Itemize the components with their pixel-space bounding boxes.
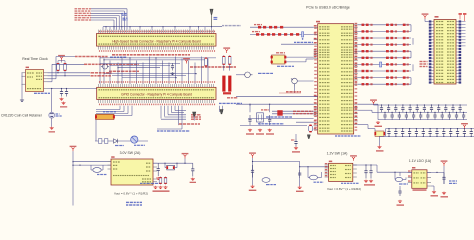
U6 left pins bbox=[408, 171, 412, 173]
capacitor C out U5 a bbox=[364, 165, 367, 179]
PCIe TX pair row w/ series caps bbox=[250, 33, 314, 35]
diode D U5 bbox=[310, 175, 318, 180]
termination row 2 series group B bbox=[386, 30, 389, 32]
termination row 8 wire bbox=[358, 70, 411, 72]
net label RTC_INT row bbox=[75, 56, 108, 58]
termination row 3 end cap bbox=[403, 37, 406, 39]
termination row 4 series resistor group A bbox=[362, 43, 365, 45]
termination row 9 series resistor group A bbox=[362, 76, 365, 78]
battery BT1 symbol bbox=[49, 112, 55, 118]
termination row 3 series resistor group A bbox=[362, 37, 365, 39]
termination row 8 series resistor group A bbox=[362, 70, 365, 72]
J3 inner pin names bbox=[436, 21, 444, 22]
wires pair to label bus bbox=[223, 65, 225, 70]
connector J2 GPIO top pin row bbox=[99, 81, 215, 87]
power flag input +5V bbox=[72, 148, 75, 152]
battery designator bbox=[56, 113, 60, 114]
ground RTC caps 1 bbox=[59, 98, 63, 101]
crystal case cap bbox=[259, 122, 261, 125]
blue label below bundle bbox=[157, 130, 190, 131]
bank2 top rail bbox=[386, 128, 474, 130]
LED D bright red pair bbox=[222, 76, 231, 92]
rail stubs to J1 pins bbox=[102, 27, 104, 30]
bank2 capacitors bbox=[387, 129, 390, 137]
red series pair lower bbox=[272, 110, 314, 112]
resistors R pullup pair right bbox=[223, 55, 226, 65]
transistor Q1 bbox=[244, 72, 253, 78]
J1 inner pin names top bbox=[99, 36, 215, 37]
termination row 1 series group B bbox=[386, 24, 389, 26]
wire U5 out to LDO bbox=[376, 165, 378, 172]
power flag +3V3 RTC bbox=[60, 57, 63, 61]
wires bend left to edge bbox=[119, 106, 121, 110]
vertical link wires in rows bbox=[410, 25, 412, 32]
termination row 4 wire bbox=[358, 44, 411, 46]
bank1 left drop + ground bbox=[377, 105, 379, 120]
svg-text:1.2V SW (1A): 1.2V SW (1A) bbox=[327, 152, 348, 156]
inductor L1 bbox=[166, 165, 174, 170]
capacitor C RTC 1 bbox=[60, 89, 63, 97]
resistor R pullup RTC 1 bbox=[57, 63, 60, 72]
U4 pin names left bbox=[113, 161, 120, 162]
connector J1 body bbox=[97, 34, 217, 47]
hmm ground ldo in bbox=[398, 200, 402, 203]
U6 pin names bbox=[413, 172, 419, 173]
U5 left pins bbox=[325, 164, 329, 166]
long rail into U1 bottom-left bbox=[236, 96, 318, 98]
page ref blue bottom left bbox=[126, 202, 142, 203]
termination row 8 end cap bbox=[403, 70, 406, 72]
J3 right pin pads bbox=[456, 20, 461, 83]
wires J2 right bottom pins down bbox=[219, 106, 221, 112]
U4 right pin stubs bbox=[153, 162, 157, 164]
termination row 7 wire bbox=[358, 63, 411, 65]
U1 right lower stubs to banks bbox=[358, 103, 378, 105]
capacitor C out U5 b bbox=[369, 165, 372, 179]
input rail vertical wire bbox=[72, 151, 74, 205]
net labels PCIe/serial bus (top-left) bbox=[75, 8, 92, 9]
J3 left pin pads bbox=[429, 20, 434, 83]
capacitor C LDO in bbox=[399, 172, 401, 176]
U3 pin names bbox=[27, 72, 34, 73]
net label RTC_SDA bbox=[91, 75, 111, 77]
U6 input wire bbox=[406, 171, 412, 173]
grounds crystal red bbox=[248, 129, 252, 132]
capacitor C mid with ground bbox=[171, 63, 174, 71]
bank2 right power flag bbox=[463, 125, 466, 129]
termination row 1 series resistor group A bbox=[362, 24, 365, 26]
termination row 3 series group B bbox=[386, 37, 389, 39]
ground U5 in red bbox=[298, 186, 302, 189]
svg-text:GPIO Connector - Raspberry Pi: GPIO Connector - Raspberry Pi 4 Compute … bbox=[121, 93, 192, 97]
feedback resistors R1 R2 bbox=[159, 177, 162, 185]
wire crystal to U1 a bbox=[286, 56, 313, 58]
transistor Q2 bbox=[291, 78, 297, 86]
crystal circuit X1 top bbox=[271, 55, 287, 64]
wire I2C SCL from U3 bbox=[48, 72, 91, 74]
decoupling bank 1 top rail bbox=[378, 104, 467, 106]
wire bus from labels to J1 top pins bbox=[91, 8, 127, 10]
svg-text:PCIe to USB3.0 uDC/Bridge: PCIe to USB3.0 uDC/Bridge bbox=[306, 6, 350, 10]
termination row 10 series resistor group A bbox=[362, 83, 365, 85]
wires bundle to labels bbox=[175, 110, 186, 112]
capacitor C LDO out bbox=[442, 172, 445, 184]
connector J1 bottom pin row bbox=[99, 46, 215, 52]
J2 inner pin names bottom bbox=[99, 97, 215, 98]
termination row 3 wire bbox=[358, 37, 411, 39]
blue ref labels on bus bbox=[122, 13, 127, 14]
power flag above J3 left bbox=[424, 15, 427, 19]
termination row 4 end cap bbox=[403, 43, 406, 45]
U1 right pin stubs w/ numbers bbox=[354, 23, 358, 125]
svg-text:3.0V SW (2A): 3.0V SW (2A) bbox=[120, 151, 141, 155]
U4 part label blue bbox=[140, 183, 160, 184]
termination row 7 end cap bbox=[403, 63, 406, 65]
thermistor input bbox=[91, 168, 103, 173]
U5 pin names bbox=[330, 165, 336, 166]
U1 lower-left wires bbox=[236, 103, 314, 105]
power flag U5 out bbox=[352, 157, 355, 161]
termination row 6 series group B bbox=[386, 57, 389, 59]
svg-text:CR1220 Coin Cell Retainer: CR1220 Coin Cell Retainer bbox=[1, 114, 43, 118]
flag below-left of U1 bbox=[307, 135, 310, 139]
thermistor small bbox=[262, 178, 270, 183]
U5 right pins bbox=[353, 164, 357, 166]
ferrite bead FB1 orange bbox=[95, 114, 115, 119]
ground battery red bbox=[51, 118, 53, 126]
net label row 2 wire bbox=[48, 81, 53, 83]
flag symbol right bbox=[220, 110, 223, 114]
grounds LDO out red bbox=[432, 191, 436, 194]
net labels USB right of bundle bbox=[191, 114, 200, 115]
net name bus labels below J1 bbox=[112, 54, 190, 56]
input branch U5 bbox=[299, 162, 301, 187]
termination row 5 series group B bbox=[386, 50, 389, 52]
blue ref label below pair bbox=[219, 103, 242, 104]
crystal circuit bottom X2 bbox=[249, 104, 251, 112]
power flag +3V3 mid bbox=[185, 60, 188, 64]
termination row 8 series group B bbox=[386, 70, 389, 72]
svg-text:Vout = 0.8V * (1 + R1/R2): Vout = 0.8V * (1 + R1/R2) bbox=[327, 187, 361, 191]
regulator U4 body bbox=[111, 159, 153, 185]
U4 inner mid label bbox=[113, 175, 149, 176]
termination row 9 series group B bbox=[386, 76, 389, 78]
termination row 9 end cap bbox=[403, 76, 406, 78]
top rail wire above J1 bbox=[103, 26, 222, 28]
wire ferrite down to ESD row bbox=[95, 120, 97, 142]
crystal load capacitor CL1 bbox=[248, 115, 251, 125]
termination row 2 wire bbox=[358, 30, 411, 32]
test point flags top right bbox=[459, 13, 462, 15]
U6 right pins bbox=[427, 171, 431, 173]
blue net label below J1 left bbox=[110, 57, 127, 58]
diode D ESD bbox=[114, 139, 118, 143]
blue label above ferrite bbox=[103, 111, 116, 112]
svg-text:1.1V LDO (1A): 1.1V LDO (1A) bbox=[409, 159, 431, 163]
svg-text:High-Speed Serial Connector -: High-Speed Serial Connector - Raspberry … bbox=[112, 39, 201, 43]
connector J2 bottom pin row bbox=[99, 100, 215, 106]
capacitor C in U5 bbox=[298, 170, 301, 178]
U1 pin names left column bbox=[319, 26, 330, 27]
bank2 left wires + ground bbox=[385, 129, 387, 137]
PCIe RX pair row w/ series caps bbox=[250, 26, 314, 28]
blue label cap value bbox=[449, 180, 457, 181]
U5 output rail bbox=[353, 164, 377, 166]
U4 left pin stubs bbox=[108, 161, 112, 163]
LDO U6 body bbox=[412, 170, 427, 189]
resistor R pullup mid bbox=[205, 57, 208, 67]
wires J2 bottom USB drop bundle bbox=[160, 106, 162, 119]
termination row 10 end cap bbox=[403, 83, 406, 85]
capacitor C out0 after U4 bbox=[157, 163, 160, 176]
junction dots mid region bbox=[103, 59, 104, 60]
J3 right short stubs bbox=[461, 21, 465, 23]
power flag +3V3 right pair bbox=[225, 49, 228, 53]
grounds U5 out red bbox=[364, 180, 368, 183]
wire RTC bottom rail to GPIO bbox=[48, 88, 97, 90]
connector J1 High-Speed Serial top pin row bbox=[99, 30, 215, 34]
termination row 2 end cap bbox=[403, 30, 406, 32]
RTC IC U3 body bbox=[26, 70, 44, 92]
bank1 capacitors row A bbox=[380, 105, 383, 112]
termination row 6 series resistor group A bbox=[362, 57, 365, 59]
PCIe clock row w/ label bbox=[281, 43, 314, 45]
U1 left pin stubs w/ numbers bbox=[314, 25, 318, 130]
U4 pin names right bbox=[146, 163, 150, 164]
input wires to U4 bbox=[73, 161, 111, 163]
U6 output rail bbox=[427, 171, 444, 173]
row group mid red labels bbox=[420, 61, 428, 62]
ground pair below LEDs bbox=[223, 92, 231, 94]
resistor R pullup RTC 2 bbox=[64, 63, 67, 72]
net label right of top rail bbox=[222, 25, 241, 26]
connector J3 body bbox=[434, 20, 456, 85]
power flag +3V0 output bbox=[184, 155, 187, 159]
ground far red bbox=[250, 185, 254, 188]
crystal load capacitor CL2 bbox=[268, 115, 271, 125]
U3 left pins bbox=[22, 72, 26, 74]
wire crystal to U1 b bbox=[286, 61, 306, 63]
termination row 1 wire bbox=[358, 24, 411, 26]
termination row 5 series resistor group A bbox=[362, 50, 365, 52]
J2 inner pin names top bbox=[99, 89, 215, 90]
vertical drops to J2 top pins bbox=[99, 57, 101, 85]
net label VBUS-D underlined bbox=[286, 91, 301, 93]
varistor RV1 blue circle bbox=[131, 136, 138, 143]
termination row 9 wire bbox=[358, 77, 411, 79]
small comps left of ESD row bbox=[99, 139, 108, 144]
power flag PWR_IN at J1 top rail bbox=[210, 9, 213, 27]
capacitor C out1 bbox=[191, 163, 194, 176]
U1 lower rows labels bbox=[248, 118, 314, 120]
capacitor C RTC 2 bbox=[65, 89, 68, 97]
termination row 10 series group B bbox=[386, 83, 389, 85]
U1 bottom pin cap to ground bbox=[295, 134, 297, 139]
termination row 1 end cap bbox=[403, 24, 406, 26]
net label RTC_SCL bbox=[91, 72, 112, 74]
transistor Q mid-left bbox=[101, 64, 109, 69]
blue element row 7 bbox=[380, 62, 382, 67]
U1 pin numbers all rows bbox=[314, 25, 357, 130]
bank1 capacitors row B bbox=[383, 112, 386, 119]
wire Q2 to U1 bbox=[297, 80, 313, 82]
grounds below U4 red bbox=[153, 186, 157, 189]
regulator U5 body bbox=[329, 163, 353, 181]
termination row 5 end cap bbox=[403, 50, 406, 52]
capacitor C in far bbox=[251, 165, 254, 178]
svg-text:Real Time Clock: Real Time Clock bbox=[22, 57, 48, 61]
termination row 6 end cap bbox=[403, 57, 406, 59]
svg-text:Vout = 0.8V * (1 + R1/R2): Vout = 0.8V * (1 + R1/R2) bbox=[114, 191, 148, 195]
ground C out1 red bbox=[191, 178, 195, 181]
J1 inner pin names bottom bbox=[99, 43, 215, 44]
IC U1 body bbox=[318, 24, 354, 134]
input cap branch far left bbox=[251, 154, 254, 158]
termination row 5 wire bbox=[358, 50, 411, 52]
bank1 left power flag bbox=[372, 101, 375, 105]
U4 output rail bbox=[153, 162, 187, 164]
U3 right pins bbox=[44, 72, 48, 74]
bank2 bottom rail bbox=[386, 135, 474, 137]
termination row 10 wire bbox=[358, 83, 411, 85]
U1 part label below bbox=[335, 135, 361, 136]
U1 pin names right column bbox=[341, 26, 352, 27]
termination row 7 series group B bbox=[386, 63, 389, 65]
connector J2 body bbox=[97, 87, 216, 99]
termination row 7 series resistor group A bbox=[362, 63, 365, 65]
bank2 ferrite bead bbox=[374, 131, 385, 136]
wire U6 gnd pin down bbox=[431, 185, 434, 187]
wire U3 left pin down to ground bbox=[21, 73, 23, 99]
thermistor LDO in bbox=[395, 177, 402, 181]
bank1 bottom rail bbox=[378, 119, 467, 121]
termination row 6 wire bbox=[358, 57, 411, 59]
ground U3 left bbox=[20, 99, 24, 102]
U5 part label bbox=[341, 183, 359, 184]
wire I2C SDA from U3 bbox=[48, 75, 91, 77]
bank1 mid rail bbox=[378, 111, 467, 113]
net label USB D+/D- underlined bbox=[179, 123, 200, 125]
component before U1 pin bbox=[308, 125, 312, 133]
wire battery to RTC rail bbox=[51, 89, 53, 113]
flag symbol mid bbox=[193, 112, 196, 121]
ground RTC caps 2 bbox=[61, 102, 65, 105]
power flag 1.1V out bbox=[443, 162, 446, 166]
U6 part label red below bbox=[413, 189, 427, 191]
termination row 4 series group B bbox=[386, 43, 389, 45]
U3 part label bbox=[34, 93, 50, 94]
termination row 2 series resistor group A bbox=[362, 30, 365, 32]
wires J1 bottom to GPIO J2 top bbox=[100, 57, 216, 59]
ESD protection row wire bbox=[95, 140, 148, 142]
